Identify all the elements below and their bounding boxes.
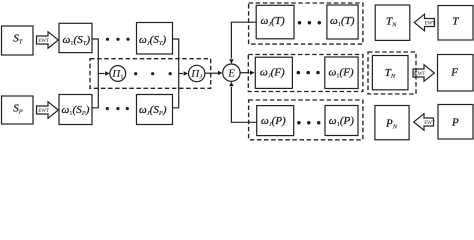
dashed box ω(T) group — [249, 3, 363, 44]
box S_P — [2, 96, 34, 124]
svg-text:EWT: EWT — [38, 108, 50, 114]
svg-text:ωJ(SP): ωJ(SP) — [139, 104, 167, 117]
dots between ωJ(F) and ω1(F) — [297, 71, 320, 75]
node Π1 — [110, 66, 126, 82]
box ω1(T) — [327, 5, 358, 39]
box ωJ(S_P) — [137, 95, 173, 125]
EWT arrow (P row, left-pointing) — [414, 114, 436, 131]
svg-text:EWT: EWT — [424, 120, 436, 126]
svg-text:ωJ(T): ωJ(T) — [261, 15, 285, 28]
svg-text:E: E — [227, 67, 235, 79]
box T_N (top row) — [375, 5, 410, 40]
box S_T — [2, 26, 34, 55]
dashed box ω(P) group — [249, 100, 363, 140]
box ω1(S_P) — [59, 95, 92, 125]
wire ω(P) box up to E — [229, 82, 257, 123]
box P_N — [375, 106, 409, 140]
box F — [438, 55, 474, 92]
dashed box ω(F) group — [248, 55, 363, 92]
svg-text:EWT: EWT — [425, 21, 437, 27]
wire ω1 pair (ω1(S_T) to ω1(S_P)) — [92, 39, 98, 108]
IEWT arrow (F row, right-pointing) — [413, 65, 434, 82]
box ω1(F) — [325, 57, 358, 89]
svg-text:IEWT: IEWT — [413, 71, 426, 77]
wire E to ω(F) box — [240, 71, 255, 75]
arrow into ΠJ — [179, 71, 189, 75]
svg-text:F: F — [450, 66, 458, 78]
arrow into Π1 — [98, 71, 109, 75]
box T — [438, 6, 473, 41]
EWT arrow (T row, left-pointing) — [414, 14, 436, 31]
svg-text:ωJ(ST): ωJ(ST) — [139, 34, 166, 47]
wire ΠJ to E — [205, 71, 223, 75]
box ω1(P) — [325, 106, 358, 136]
svg-text:ωJ(P): ωJ(P) — [261, 115, 286, 128]
box ω1(S_T) — [59, 23, 92, 52]
svg-text:EWT: EWT — [38, 38, 50, 44]
svg-text:ω1(F): ω1(F) — [329, 67, 354, 80]
dots between ω1(S_P) and ωJ(S_P) — [106, 107, 129, 110]
dashed box Π ensemble — [90, 59, 211, 89]
svg-text:ω1(SP): ω1(SP) — [62, 104, 90, 117]
svg-text:T: T — [452, 16, 459, 28]
EWT arrow (S_T row) — [37, 32, 59, 49]
svg-text:ω1(T): ω1(T) — [330, 15, 355, 28]
EWT arrow (S_P row) — [37, 102, 59, 119]
wire ω(T) box down to E — [229, 22, 256, 64]
box ωJ(T) — [256, 5, 294, 39]
svg-text:ω1(P): ω1(P) — [329, 115, 354, 128]
wire ωJ pair (ωJ(S_T) to ωJ(S_P)) — [173, 39, 179, 108]
svg-text:ω1(ST): ω1(ST) — [63, 34, 91, 47]
box T_N (middle row) — [372, 56, 408, 90]
dashed box T_N (middle) — [368, 52, 416, 94]
dots between ωJ(T) and ω1(T) — [298, 21, 321, 25]
box ωJ(P) — [257, 106, 294, 136]
dots between Π1 and ΠJ — [134, 72, 172, 75]
node E — [223, 64, 240, 81]
box ωJ(S_T) — [137, 23, 173, 55]
box ωJ(F) — [255, 57, 292, 88]
svg-text:ωJ(F): ωJ(F) — [260, 67, 285, 80]
box P — [438, 105, 473, 140]
svg-text:P: P — [451, 117, 459, 129]
dots between ωJ(P) and ω1(P) — [297, 121, 320, 125]
node ΠJ — [189, 65, 205, 81]
dots between ω1(S_T) and ωJ(S_T) — [106, 38, 130, 41]
